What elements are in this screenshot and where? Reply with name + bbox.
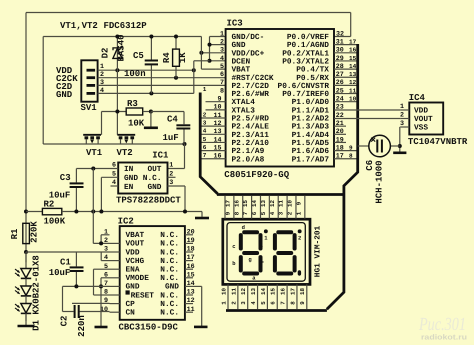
ground GND rail	[201, 212, 203, 217]
svg-text:3: 3	[220, 47, 224, 55]
svg-text:15: 15	[270, 288, 277, 295]
svg-text:18: 18	[336, 144, 344, 152]
svg-text:TC1047VNBTR: TC1047VNBTR	[408, 137, 468, 147]
node C5 bottom junction	[149, 91, 153, 95]
resistor R2 100K	[26, 211, 42, 213]
svg-text:2: 2	[230, 301, 237, 305]
svg-text:VDD/DC+: VDD/DC+	[232, 49, 265, 58]
svg-text:N.C.: N.C.	[143, 174, 162, 183]
svg-text:13: 13	[250, 288, 257, 295]
bus bottom horizontal	[226, 309, 327, 312]
node IC1 GND junction	[183, 210, 187, 214]
svg-text:1: 1	[104, 228, 108, 236]
svg-text:VMODE: VMODE	[126, 274, 150, 283]
svg-text:15: 15	[349, 55, 357, 62]
svg-text:XTAL4: XTAL4	[232, 98, 256, 107]
wire IC3 P1.1 to IC4 VDD	[334, 109, 401, 111]
wire C4 top	[151, 111, 184, 113]
svg-text:2: 2	[203, 111, 207, 118]
svg-text:P1.0/AD0: P1.0/AD0	[292, 98, 330, 107]
node IC1 GND5 junction	[99, 210, 103, 214]
svg-text:1: 1	[203, 86, 207, 93]
svg-text:10: 10	[220, 288, 227, 295]
ground IC2 GND14	[194, 326, 208, 329]
svg-text:N.C.: N.C.	[160, 274, 179, 283]
wire batt to VBAT pin5	[200, 37, 202, 70]
svg-text:P2.1/A9: P2.1/A9	[232, 147, 265, 156]
svg-text:32: 32	[336, 30, 344, 38]
ground IC4 VSS	[393, 152, 406, 155]
node IC2 VOUT junction	[99, 241, 103, 245]
node VMODE/GND junction	[99, 284, 103, 288]
svg-text:2: 2	[104, 237, 108, 245]
wire IC4 VSS to ground	[400, 126, 401, 128]
svg-text:13: 13	[349, 71, 357, 78]
svg-text:FDC6312P: FDC6312P	[104, 21, 148, 31]
svg-text:17: 17	[289, 288, 296, 295]
svg-text:12: 12	[349, 79, 357, 86]
sensor C6 HCH-1000	[358, 145, 369, 147]
svg-text:16: 16	[213, 153, 221, 161]
svg-text:17: 17	[224, 200, 231, 207]
svg-text:220K: 220K	[30, 221, 40, 243]
svg-text:P2.2/A10: P2.2/A10	[232, 139, 270, 148]
svg-text:20: 20	[336, 128, 344, 136]
svg-text:XTAL3: XTAL3	[232, 106, 256, 115]
svg-text:1: 1	[295, 211, 302, 215]
svg-text:26: 26	[336, 79, 344, 87]
svg-text:13: 13	[260, 200, 267, 207]
svg-text:R4: R4	[162, 52, 172, 63]
node R4 top junction	[174, 35, 178, 39]
HG1 top pin stubs with numbers	[224, 196, 226, 219]
wire battery+ left rail	[25, 13, 27, 263]
svg-text:3: 3	[203, 120, 207, 127]
wire GND rail	[62, 211, 202, 213]
svg-text:OUT: OUT	[147, 165, 161, 174]
svg-text:11: 11	[349, 87, 357, 94]
svg-text:7: 7	[203, 152, 207, 159]
svg-text:1: 1	[169, 162, 173, 170]
svg-text:17: 17	[349, 38, 357, 45]
wire IC2 CP	[72, 302, 110, 304]
svg-text:220n: 220n	[77, 315, 87, 337]
svg-text:HG1 VIM-201: HG1 VIM-201	[313, 225, 322, 277]
svg-text:#RST/C2CK: #RST/C2CK	[232, 74, 274, 83]
svg-text:radiokot.ru: radiokot.ru	[421, 333, 467, 342]
svg-text:15: 15	[242, 200, 249, 207]
svg-text:P1.7/AD7: P1.7/AD7	[292, 155, 330, 164]
node D2 top junction	[115, 35, 119, 39]
wire IC2 VMODE	[101, 277, 110, 279]
wire IN branch to IC2 VBAT/VOUT	[92, 169, 94, 244]
svg-text:11: 11	[278, 200, 285, 207]
svg-text:P1.2/AD2: P1.2/AD2	[292, 115, 330, 124]
svg-text:P1.5/AD5: P1.5/AD5	[292, 139, 330, 148]
svg-text:VT2: VT2	[117, 148, 133, 158]
svg-text:25: 25	[336, 87, 344, 95]
svg-text:VOUT: VOUT	[126, 240, 145, 249]
wire IC2 VBAT hook	[101, 234, 109, 236]
svg-text:GND: GND	[232, 41, 246, 50]
wire VT1 gate riser	[101, 112, 103, 135]
svg-text:100n: 100n	[124, 69, 146, 79]
svg-text:12: 12	[269, 200, 276, 207]
svg-text:6: 6	[251, 211, 258, 215]
svg-text:C2: C2	[60, 316, 70, 327]
svg-text:4: 4	[203, 128, 207, 135]
svg-text:C3: C3	[60, 173, 71, 183]
svg-text:P2.6/#WR: P2.6/#WR	[232, 90, 270, 99]
segment marker square 1	[264, 229, 268, 233]
svg-text:c: c	[232, 243, 235, 250]
svg-text:1uF: 1uF	[163, 133, 179, 143]
svg-text:N.C.: N.C.	[160, 231, 179, 240]
svg-text:10K: 10K	[128, 119, 145, 129]
bus top horizontal	[217, 193, 344, 196]
svg-text:R3: R3	[127, 99, 138, 109]
svg-text:21: 21	[336, 120, 344, 128]
svg-text:P0.1/AGND: P0.1/AGND	[287, 41, 329, 50]
svg-text:GND: GND	[56, 90, 73, 100]
svg-text:GND/DC-: GND/DC-	[232, 33, 265, 42]
svg-text:P1.4/AD4: P1.4/AD4	[292, 131, 330, 140]
svg-text:VDD: VDD	[126, 248, 140, 257]
svg-text:1: 1	[220, 301, 227, 305]
svg-text:8: 8	[349, 153, 353, 160]
svg-text:CBC3150-D9C: CBC3150-D9C	[119, 323, 179, 333]
wire battery+ top rail to P0.0 pin 32	[26, 12, 351, 14]
svg-text:28: 28	[336, 63, 344, 71]
IC U1 TPS78228 box	[118, 163, 167, 194]
node C6/VSS junction	[398, 144, 402, 148]
wire IC1 GND pin3	[168, 185, 186, 187]
svg-text:N.C.: N.C.	[160, 300, 179, 309]
wire VT gates	[102, 111, 127, 113]
svg-text:9: 9	[217, 96, 221, 104]
svg-text:12: 12	[240, 288, 247, 295]
svg-text:VBAT: VBAT	[126, 231, 145, 240]
node R4 bottom junction	[174, 76, 178, 80]
node pin3 junction	[199, 51, 203, 55]
node battery+/R2 junction	[24, 210, 28, 214]
wire SV1.4 GND rail	[98, 92, 194, 94]
wire IC1 GND pin5	[101, 176, 118, 178]
svg-text:6: 6	[220, 71, 224, 79]
svg-text:30: 30	[336, 47, 344, 55]
svg-text:VDD: VDD	[414, 107, 428, 116]
svg-text:GND: GND	[124, 174, 138, 183]
svg-text:TPS78228DDCT: TPS78228DDCT	[116, 196, 181, 206]
svg-text:11: 11	[230, 288, 237, 295]
node pin4 junction	[208, 59, 212, 63]
svg-text:CN: CN	[126, 309, 136, 318]
svg-text:8: 8	[220, 87, 224, 95]
svg-text:ENA: ENA	[126, 266, 140, 275]
svg-text:EN: EN	[124, 183, 134, 192]
svg-text:P0.6/CNVSTR: P0.6/CNVSTR	[278, 82, 330, 91]
node rail/IC2 VDD junction	[24, 250, 28, 254]
svg-text:7: 7	[280, 301, 287, 305]
capacitor C2 220n	[62, 286, 64, 311]
svg-text:C5: C5	[133, 51, 144, 61]
wire SV1.3 C2D rail to IC3 pin7	[98, 84, 226, 86]
node C1 bottom junction	[74, 284, 78, 288]
svg-text:5: 5	[220, 63, 224, 71]
svg-text:6: 6	[270, 301, 277, 305]
svg-text:14: 14	[349, 63, 357, 70]
wire IC1 IN	[76, 168, 118, 170]
svg-text:17: 17	[336, 153, 344, 161]
svg-text:P0.2/XTAL1: P0.2/XTAL1	[282, 49, 329, 58]
svg-text:1K: 1K	[178, 52, 188, 63]
svg-text:2: 2	[286, 211, 293, 215]
svg-text:18: 18	[299, 288, 306, 295]
node VDD rail end junction	[192, 68, 196, 72]
capacitor C3 10uF	[75, 169, 77, 183]
svg-text:4: 4	[269, 211, 276, 215]
svg-text:5: 5	[203, 136, 207, 143]
wire IC3 pin4 DCEN	[210, 60, 226, 62]
svg-text:R2: R2	[44, 200, 55, 210]
svg-text:P0.4/TX: P0.4/TX	[296, 66, 329, 75]
svg-text:2: 2	[298, 234, 301, 241]
wire IC1 OUT riser	[184, 144, 186, 169]
capacitor C1 10uF	[75, 252, 77, 266]
svg-text:9: 9	[224, 211, 231, 215]
svg-text:8: 8	[289, 301, 296, 305]
ground R3/C4	[150, 112, 152, 128]
svg-text:d: d	[242, 224, 245, 231]
node R3/D2 gate junction	[115, 110, 119, 114]
svg-text:C6: C6	[365, 160, 375, 171]
svg-text:IC1: IC1	[152, 151, 169, 161]
bus right vertical from IC3	[327, 44, 358, 309]
svg-text:DCEN: DCEN	[232, 57, 251, 66]
svg-text:N.C.: N.C.	[160, 248, 179, 257]
svg-text:4: 4	[220, 55, 224, 63]
solar cell array D1 KX0B22-01X8	[25, 252, 27, 269]
svg-text:RESET: RESET	[131, 291, 155, 300]
resistor R4 1K	[175, 37, 177, 50]
svg-text:D1 KX0B22-01X8: D1 KX0B22-01X8	[32, 255, 42, 331]
segment marker square 2	[298, 229, 302, 233]
svg-text:VOUT: VOUT	[414, 115, 433, 124]
svg-text:10uF: 10uF	[49, 268, 71, 278]
svg-text:IN: IN	[124, 165, 134, 174]
svg-text:5: 5	[260, 211, 267, 215]
svg-text:IC4: IC4	[409, 93, 426, 103]
svg-text:14: 14	[260, 288, 267, 295]
transistor VT2 MOSFET	[117, 134, 135, 136]
svg-text:P0.5/RX: P0.5/RX	[296, 74, 329, 83]
node IC2 feed junction	[91, 210, 95, 214]
svg-text:2: 2	[400, 112, 404, 120]
svg-text:13: 13	[213, 128, 221, 136]
svg-text:P1.3/AD3: P1.3/AD3	[292, 123, 330, 132]
svg-text:BAS40: BAS40	[116, 34, 126, 61]
svg-text:N.C.: N.C.	[160, 240, 179, 249]
diode D2 BAS40	[116, 37, 118, 135]
svg-text:C8051F920-GQ: C8051F920-GQ	[224, 170, 289, 180]
node pin2 junction	[208, 43, 212, 47]
svg-text:29: 29	[336, 55, 344, 63]
resistor R3 10K	[126, 108, 143, 115]
connector SV1	[81, 60, 97, 101]
node C3 bottom junction	[74, 210, 78, 214]
wire IC3 pin3 VDD/DC+	[201, 52, 225, 54]
capacitor C4 1uF	[176, 124, 190, 126]
svg-text:3: 3	[240, 301, 247, 305]
7-segment digit 2	[276, 230, 293, 234]
svg-text:5: 5	[260, 301, 267, 305]
svg-text:31: 31	[336, 38, 344, 46]
svg-text:3: 3	[278, 211, 285, 215]
wire IC3 pin2	[210, 44, 226, 46]
svg-text:P1.6/AD6: P1.6/AD6	[292, 147, 330, 156]
svg-text:P2.3/A11: P2.3/A11	[232, 131, 270, 140]
svg-text:1: 1	[220, 30, 224, 38]
svg-text:P1.1/AD1: P1.1/AD1	[292, 106, 330, 115]
svg-text:P2.5/#RD: P2.5/#RD	[232, 115, 270, 124]
svg-text:6: 6	[203, 144, 207, 151]
svg-text:P0.7/IREF0: P0.7/IREF0	[282, 90, 329, 99]
wire IC3 P1.2 to IC4 VOUT	[334, 118, 401, 120]
LCD HG1 VIM-201 box	[223, 219, 310, 284]
node IN/IC2 branch junction	[91, 167, 95, 171]
svg-text:24: 24	[336, 96, 344, 104]
svg-text:IC3: IC3	[227, 19, 243, 29]
node R3/C4 ground junction	[149, 110, 153, 114]
svg-text:C1: C1	[60, 258, 71, 268]
svg-text:GND: GND	[147, 183, 161, 192]
svg-text:10: 10	[349, 96, 357, 103]
svg-text:14: 14	[251, 200, 258, 207]
svg-text:9: 9	[295, 201, 302, 205]
node C5 top junction	[149, 35, 153, 39]
bus left vertical	[200, 93, 217, 194]
svg-text:SV1: SV1	[81, 103, 98, 113]
wire IC1 EN stub	[111, 185, 119, 187]
svg-text:27: 27	[336, 71, 344, 79]
svg-text:14: 14	[213, 136, 221, 144]
svg-text:VT1,VT2: VT1,VT2	[60, 21, 98, 31]
wire IC3 gnd group vertical	[209, 37, 211, 61]
HG1 bottom pin stubs with numbers	[227, 284, 229, 309]
svg-text:P0.3/XTAL2: P0.3/XTAL2	[282, 57, 329, 66]
IC U3 C8051F920 box	[226, 29, 334, 167]
svg-text:2: 2	[220, 38, 224, 46]
wire rail to IC2 VDD/C1	[26, 251, 110, 253]
svg-text:P2.7/C2D: P2.7/C2D	[232, 82, 270, 91]
svg-text:9: 9	[349, 144, 353, 151]
svg-text:N.C.: N.C.	[160, 309, 179, 318]
wire IC3 pin1 GND/DC-	[210, 36, 226, 38]
node D2/VDD junction	[115, 68, 119, 72]
svg-text:HCH-1000: HCH-1000	[375, 160, 385, 203]
resistor R1 220K	[23, 223, 30, 243]
svg-text:VT1: VT1	[86, 148, 103, 158]
svg-text:CP: CP	[126, 300, 136, 309]
svg-text:P2.0/A8: P2.0/A8	[232, 155, 265, 164]
svg-text:N.C.: N.C.	[160, 257, 179, 266]
IC4 TC1047 box	[409, 103, 443, 135]
node C4/IC1 OUT junction	[183, 142, 187, 146]
svg-text:7: 7	[220, 79, 224, 87]
svg-text:4: 4	[250, 301, 257, 305]
svg-text:3: 3	[104, 246, 108, 254]
svg-text:R1: R1	[10, 228, 20, 239]
svg-text:100K: 100K	[44, 217, 66, 227]
wire R3 right	[143, 111, 151, 113]
svg-text:8: 8	[233, 211, 240, 215]
svg-text:P0.0/VREF: P0.0/VREF	[287, 33, 329, 42]
wire SV1.2 C2CK/#RST rail to IC3 pin6	[98, 77, 226, 79]
transistor VT1 MOSFET	[83, 134, 101, 136]
7-segment digit 1	[242, 230, 259, 234]
svg-text:19: 19	[336, 136, 344, 144]
wire SV1.1 VDD rail	[98, 69, 194, 71]
wire IC2 ENA to RESET hook	[94, 268, 110, 270]
svg-text:10: 10	[286, 200, 293, 207]
svg-text:16: 16	[280, 288, 287, 295]
svg-text:10: 10	[213, 104, 221, 112]
svg-text:P2.4/ALE: P2.4/ALE	[232, 123, 270, 132]
svg-text:16: 16	[233, 200, 240, 207]
svg-text:N.C.: N.C.	[160, 266, 179, 275]
wire IC1 pin2 stub	[168, 176, 176, 178]
svg-text:7: 7	[242, 211, 249, 215]
svg-text:D2: D2	[101, 48, 111, 59]
svg-text:C4: C4	[167, 115, 178, 125]
ground VMODE line	[95, 326, 108, 329]
ground solar cells	[25, 314, 27, 326]
wire IC2 VCHG hook	[100, 252, 102, 261]
wire IC2 GND14 to ground	[193, 285, 202, 287]
svg-text:11: 11	[213, 112, 221, 120]
svg-text:GND: GND	[165, 283, 179, 292]
svg-text:IC2: IC2	[118, 217, 134, 227]
segment comma digit 2	[298, 270, 301, 275]
wire switched supply inner rail	[43, 36, 201, 38]
IC4 pin stubs and numbers	[401, 109, 410, 111]
svg-text:VSS: VSS	[414, 124, 428, 133]
svg-text:9: 9	[299, 301, 306, 305]
svg-text:VCHG: VCHG	[126, 257, 145, 266]
wire gnd group to GND rail	[194, 60, 210, 62]
svg-text:GND: GND	[126, 283, 140, 292]
wire IC1 GND5 to GND rail	[100, 177, 102, 211]
svg-text:1: 1	[400, 103, 404, 111]
capacitor C5 100n	[150, 37, 152, 60]
IC U2 CBC3150 box	[120, 226, 185, 320]
svg-text:g: g	[248, 256, 251, 263]
svg-text:VBAT: VBAT	[232, 66, 251, 75]
svg-text:N.C.: N.C.	[160, 291, 179, 300]
svg-text:16: 16	[349, 47, 357, 54]
wire IC2 GND7 rail	[63, 285, 110, 287]
